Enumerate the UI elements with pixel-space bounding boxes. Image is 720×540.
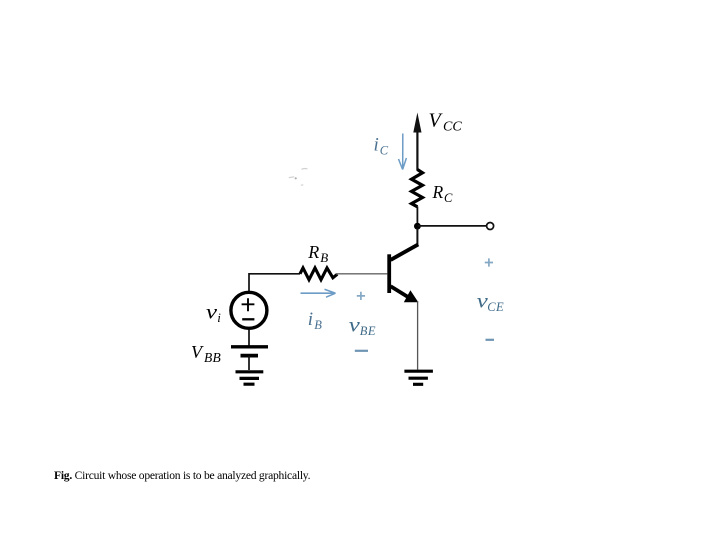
wire source to RB xyxy=(249,274,300,291)
current arrow i_C xyxy=(399,134,407,170)
VCC arrow head xyxy=(413,113,421,133)
svg-text:V: V xyxy=(191,342,204,362)
scan smudge marks (faint) xyxy=(289,168,308,185)
svg-text:C: C xyxy=(444,191,453,205)
transistor Q1 collector lead xyxy=(416,228,418,246)
transistor Q1 base bar xyxy=(387,254,391,293)
svg-text:i: i xyxy=(374,135,379,156)
node collector junction dot xyxy=(414,223,421,230)
svg-text:v: v xyxy=(206,303,217,324)
svg-text:BB: BB xyxy=(204,350,221,365)
svg-text:i: i xyxy=(308,309,313,330)
wire emitter to ground xyxy=(417,301,419,370)
wire source to battery xyxy=(248,330,250,346)
svg-text:i: i xyxy=(217,310,221,325)
wire battery to ground xyxy=(248,356,250,370)
plus inside source xyxy=(242,298,255,311)
ground emitter xyxy=(404,371,433,384)
wire RC to collector node xyxy=(416,207,418,229)
resistor RB xyxy=(300,268,337,280)
battery V_BB long plate xyxy=(231,345,268,348)
current arrow i_B xyxy=(301,289,336,297)
svg-text:V: V xyxy=(429,110,444,132)
ground source xyxy=(236,372,264,384)
svg-text:BE: BE xyxy=(360,324,376,338)
resistor RC xyxy=(412,170,423,207)
wire VCC supply vertical xyxy=(416,128,418,171)
svg-text:v: v xyxy=(349,316,360,337)
plus sign v_BE xyxy=(357,292,365,300)
svg-text:B: B xyxy=(314,318,322,332)
minus inside source xyxy=(242,318,254,320)
wire RB to base xyxy=(336,273,388,275)
battery V_BB short plate xyxy=(241,354,259,358)
transistor Q1 emitter arrow head xyxy=(404,290,419,302)
voltage source v_i circle xyxy=(231,292,267,328)
transistor Q1 emitter lead xyxy=(391,286,409,297)
caption xyxy=(54,469,310,482)
svg-text:CC: CC xyxy=(443,120,462,135)
svg-text:R: R xyxy=(307,242,319,262)
svg-text:C: C xyxy=(380,144,389,158)
plus sign v_CE xyxy=(485,258,493,266)
svg-text:R: R xyxy=(432,182,444,202)
wire collector to output terminal xyxy=(417,225,486,227)
output terminal open circle xyxy=(487,223,494,230)
minus sign v_BE xyxy=(355,350,368,352)
svg-text:CE: CE xyxy=(487,300,504,314)
minus sign v_CE xyxy=(486,339,495,341)
svg-text:B: B xyxy=(320,250,328,265)
